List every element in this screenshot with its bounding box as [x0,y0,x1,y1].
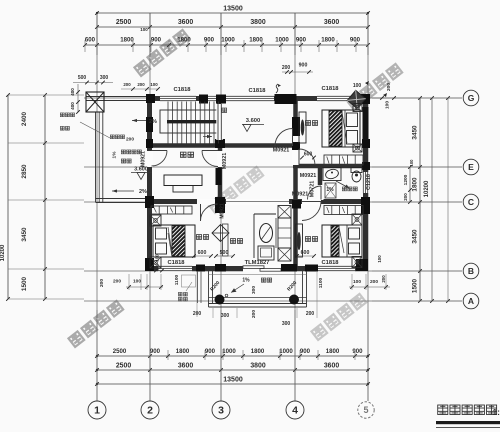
shower area bathroom [325,183,336,198]
bed bedroom NE [322,110,360,147]
stair east wall thin [216,104,222,140]
grid bubble E [463,159,479,175]
svg-text:500: 500 [78,75,87,81]
svg-text:1800: 1800 [249,37,263,44]
svg-text:1800: 1800 [176,348,190,355]
svg-text:200: 200 [306,311,315,317]
svg-text:500: 500 [220,250,229,256]
watermark 图纸之家 3 [208,167,263,213]
svg-text:900: 900 [352,348,363,355]
svg-text:4: 4 [292,405,298,417]
label 门槛高200 [110,135,114,139]
watermark 图纸之家 1 [134,30,189,76]
svg-text:200: 200 [126,137,134,143]
grid bubble 4 [286,401,304,419]
terrace left railing [95,112,97,202]
svg-text:2%: 2% [149,119,157,125]
svg-text:600: 600 [198,250,207,256]
col B4 [305,265,318,272]
dimension chain left [44,95,46,299]
svg-text:B: B [468,266,474,276]
window C1818 south-2 [318,265,355,271]
column symbol NE diamond [347,90,365,108]
study east wall [218,143,223,204]
svg-text:3800: 3800 [250,19,265,26]
svg-text:C1818: C1818 [173,87,191,93]
svg-text:200: 200 [137,82,145,87]
door opening bedroom NE [292,148,300,165]
door opening bathroom [318,185,324,200]
tv cabinet living room [223,224,229,256]
svg-text:100: 100 [409,159,414,167]
door opening C-wall living open [226,199,289,205]
door opening hall upper [292,128,300,146]
washbasin bathroom [323,168,341,181]
dimension fine chain top [85,44,368,46]
leader 分水线 [80,122,110,138]
grid bubble A [463,293,479,309]
svg-text:M0921: M0921 [222,153,228,169]
svg-text:3600: 3600 [178,363,193,370]
svg-text:1:: 1: [492,407,500,417]
svg-text:E: E [468,162,474,172]
col C-E [361,197,370,214]
svg-text:C: C [468,197,474,207]
dimension total 13500 bottom [97,383,368,385]
grid bubble G [463,90,479,106]
grid bubble 1 [88,401,106,419]
svg-text:900: 900 [151,37,162,44]
svg-text:M0921: M0921 [220,203,226,219]
svg-text:900: 900 [205,348,216,355]
label 下 stairs [222,108,227,112]
label 客厅 living room [230,239,235,244]
svg-text:3450: 3450 [412,125,419,140]
dimension row 2500/3600/3800/3600 bottom [97,369,368,371]
svg-text:M0921: M0921 [141,151,147,167]
svg-text:200: 200 [370,279,378,285]
dimension total 10200 left [7,95,9,299]
svg-text:3450: 3450 [412,229,419,244]
svg-text:100: 100 [133,279,141,285]
svg-text:100: 100 [353,279,361,285]
col N2 [216,95,226,104]
label 书房 study [180,152,186,157]
label 阳台 balcony [261,278,265,282]
col NW [146,94,155,103]
grid axis line 3 [220,13,222,401]
svg-text:400: 400 [70,88,75,96]
svg-text:200: 200 [386,83,392,91]
svg-text:2500: 2500 [116,363,131,370]
label 素混凝土 [121,150,125,154]
svg-text:A: A [468,296,474,306]
east wall [363,96,368,271]
svg-text:900: 900 [350,37,361,44]
svg-text:13500: 13500 [223,6,243,13]
nightstand SE bedroom 1 [352,214,362,225]
col hall E mid [292,117,300,136]
dims SE cluster lines [349,286,390,288]
terrace top edge [86,96,147,98]
svg-text:1800: 1800 [321,37,335,44]
svg-text:600: 600 [301,250,310,256]
svg-text:200: 200 [251,310,257,318]
svg-text:1800: 1800 [412,177,419,192]
label 露台 [121,159,125,163]
bathroom west wall [318,164,323,204]
svg-text:100: 100 [377,255,382,263]
svg-text:10200: 10200 [424,180,430,197]
svg-text:100: 100 [140,27,148,32]
svg-text:3: 3 [218,405,224,417]
grid axis line A [84,300,462,302]
door M0921 bedroom NE arc [299,149,315,165]
svg-text:200: 200 [403,193,408,201]
svg-text:900: 900 [300,348,311,355]
grid axis line 5 [367,13,369,401]
svg-text:1%: 1% [242,278,250,284]
svg-text:C1818: C1818 [248,88,266,94]
balcony dot [225,294,228,297]
watermark 图纸之家 5 [311,294,366,340]
col W2 [146,139,153,148]
svg-text:1: 1 [94,405,100,417]
svg-text:400: 400 [70,102,75,110]
nightstand NE bedroom top [353,104,362,112]
floor drain arrow bathroom [336,181,349,188]
swing symbol north wall [276,84,278,93]
west wall [147,96,152,271]
col W4 [145,258,153,271]
door bedroom SW arc [201,204,218,221]
door M0921 hall upper arc [275,129,293,147]
grid bubble C [463,194,479,210]
grid bubble 2 [141,401,159,419]
col study east mid [216,168,222,185]
label 空调搁板 [178,292,187,301]
watermark 图纸之家 2 [347,64,402,110]
svg-text:200: 200 [99,279,105,287]
grid bubble B [463,263,479,279]
svg-text:300: 300 [251,286,257,294]
label 卧室 NE [305,121,310,126]
AC shelf rect [182,275,196,287]
bed bedroom SW [153,225,195,257]
col B1 [196,265,205,272]
svg-text:100: 100 [385,101,391,109]
label 卧室 SE [305,237,310,242]
svg-text:M0921: M0921 [273,148,289,154]
svg-text:1100: 1100 [174,274,180,285]
svg-text:M0921: M0921 [292,192,308,198]
col E bed NE [363,107,369,140]
desk study [164,175,202,186]
col hall E low [292,142,300,150]
col E1 [362,139,370,148]
stair east wall [217,96,222,148]
svg-text:3800: 3800 [250,363,265,370]
hall east wall [293,96,298,271]
svg-text:1500: 1500 [412,278,419,293]
window C1818 north-1 [160,95,196,101]
svg-text:600: 600 [85,37,96,44]
col SW bed [146,258,154,271]
svg-text:1200: 1200 [403,174,409,185]
col E2 [362,162,370,170]
svg-text:C1218: C1218 [366,174,372,190]
toilet bathroom [351,168,362,173]
svg-text:2500: 2500 [116,19,131,26]
dims SW cluster lines [126,286,163,288]
balcony railing [208,271,210,307]
svg-text:M0921: M0921 [300,173,316,179]
column symbol mid diamond [212,225,229,242]
terrace bottom railing [96,198,151,200]
svg-text:TLM1827: TLM1827 [245,260,270,266]
svg-text:2400: 2400 [21,111,28,126]
svg-text:900: 900 [204,37,215,44]
svg-text:900: 900 [296,37,307,44]
title 二层平面图 1:100 [438,405,448,415]
svg-text:5: 5 [363,405,368,415]
svg-text:3.600: 3.600 [246,118,261,124]
nightstand SW bedroom 1 [150,215,161,226]
window C1818 south-1 [158,265,192,271]
svg-text:1800: 1800 [251,348,265,355]
window C1818 north-3 [317,95,351,101]
nightstand NE bedroom bottom [353,144,362,152]
mid wall hall [147,143,298,148]
svg-text:100: 100 [150,82,158,87]
col N1 [199,95,208,104]
closet bedroom SW [151,206,192,214]
door opening terrace-study [146,151,153,167]
svg-text:1000: 1000 [221,37,235,44]
col SE corner [356,259,368,271]
svg-text:M0721: M0721 [310,181,316,197]
south wall B [147,266,368,271]
svg-text:2850: 2850 [21,164,28,179]
balcony column SE [289,295,299,305]
balcony column SW [215,295,225,305]
grid axis line G [84,97,462,99]
window C1218 east [362,172,368,193]
svg-text:1500: 1500 [21,276,28,291]
col B2 [215,264,226,272]
sofa group living room [278,206,291,219]
svg-text:600: 600 [304,152,313,158]
dimension total 10200 right [431,98,433,301]
svg-text:200: 200 [123,82,131,87]
dimension 200/900 small top right [282,71,313,73]
svg-text:1%: 1% [112,151,118,159]
svg-text:3450: 3450 [21,227,28,242]
col stair SE [215,139,225,148]
svg-text:10200: 10200 [0,244,6,261]
wardrobe NE bedroom [299,112,306,143]
svg-text:3600: 3600 [178,19,193,26]
grid axis line 2 [149,13,151,401]
svg-text:1000: 1000 [275,37,289,44]
svg-text:1800: 1800 [120,37,134,44]
dimension row 2500/3600/3800/3600 top [97,26,368,28]
balcony dim extension lines [196,272,198,317]
svg-text:2%: 2% [139,189,147,195]
window small north stair [207,95,216,101]
svg-text:900: 900 [299,63,308,69]
dimension 1200/200 small right [409,167,411,202]
svg-text:200: 200 [381,275,386,283]
sliding door TLM1827 [243,266,281,272]
svg-text:200: 200 [113,279,121,285]
svg-text:900: 900 [150,348,161,355]
svg-text:1000: 1000 [222,348,236,355]
closet bedroom SE [324,206,363,215]
svg-text:C1818: C1818 [321,86,339,92]
col W3 [145,196,154,208]
wardrobe SE bedroom [296,224,303,257]
svg-text:3600: 3600 [324,363,339,370]
svg-text:200: 200 [282,65,291,71]
column symbol top-left [86,92,104,112]
svg-text:2500: 2500 [113,348,127,355]
grid axis line E [84,166,462,168]
bed bedroom SE [322,225,362,257]
C wall [147,199,368,204]
north wall G [147,96,368,101]
nightstand SE bedroom 2 [352,257,362,268]
nightstand SW bedroom 2 [150,257,161,268]
E wall right [293,164,368,169]
door opening C-wall bedroom SE [302,199,321,205]
svg-text:13500: 13500 [223,377,243,384]
grid axis line 4 [294,13,296,401]
svg-text:2: 2 [147,405,153,417]
svg-text:G: G [468,93,475,103]
grid bubble 3 [212,401,230,419]
dimension chain right [419,98,421,301]
svg-text:300: 300 [282,321,291,327]
col B3 [281,264,297,272]
svg-text:1800: 1800 [177,37,191,44]
door M0721 bathroom arc [308,186,322,200]
slope arrow balcony [231,284,244,293]
window C1818 north-2 [225,95,274,101]
grid bubble 5 dashed [358,402,374,418]
svg-text:100: 100 [353,83,362,89]
dimension extension lines right [372,97,462,99]
door bedroom SE arc [302,202,321,221]
svg-text:1800: 1800 [326,348,340,355]
grid axis line B [84,270,462,272]
svg-text:100: 100 [155,254,160,262]
col W stair mid [146,117,153,132]
svg-text:3600: 3600 [324,19,339,26]
svg-text:C1818: C1818 [167,260,185,266]
dim line end dots [96,355,98,357]
closet bedroom NE [324,155,363,165]
dimension total 13500 top [97,12,368,14]
col junction C4 [292,200,301,209]
door opening study-hall [217,151,224,167]
label 卫生间 bathroom [342,187,346,191]
door M0921 study-hall arc [202,151,218,167]
label 卧室 SW [196,235,201,240]
grid axis line 1 [96,13,98,401]
grid axis line C [84,201,462,203]
svg-text:1100: 1100 [318,277,324,288]
dimension extension lines left [8,94,84,96]
svg-text:300: 300 [100,75,109,81]
svg-text:1000: 1000 [279,348,293,355]
col NE [358,94,370,104]
stairs [167,102,169,144]
door opening C-wall bedroom SW [197,199,215,205]
svg-text:C1818: C1818 [321,260,339,266]
dimension extension lines bottom [96,310,98,401]
balcony floor step line [209,274,307,276]
door M0921 terrace-study arc [152,151,168,167]
svg-text:300: 300 [221,313,230,319]
col C mid [215,197,225,213]
dimension extension lines top [96,13,98,55]
col N3 [275,94,297,104]
dimension fine chain bottom [97,355,368,357]
watermark 图纸之家 4 [68,301,123,347]
